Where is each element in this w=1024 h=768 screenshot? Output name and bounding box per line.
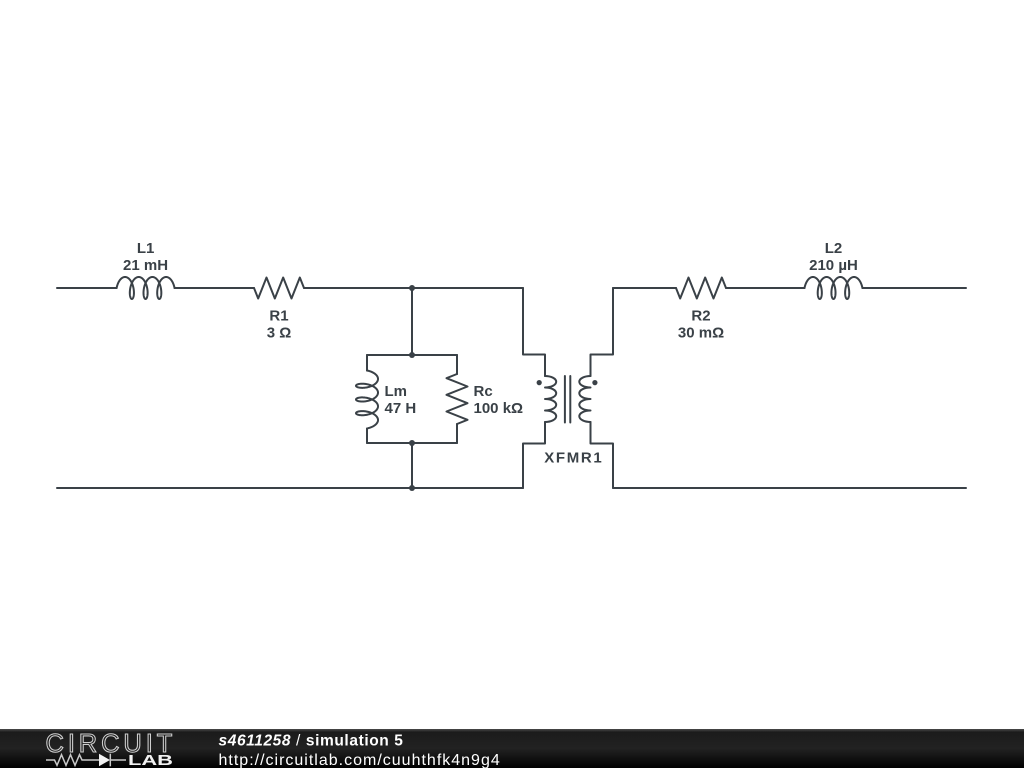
svg-text:R2: R2 <box>691 307 710 324</box>
svg-text:3 Ω: 3 Ω <box>267 324 292 341</box>
svg-text:Lm: Lm <box>385 383 408 400</box>
svg-text:L1: L1 <box>137 240 155 257</box>
svg-text:100 kΩ: 100 kΩ <box>474 400 524 417</box>
svg-text:30 mΩ: 30 mΩ <box>678 324 724 341</box>
svg-text:Rc: Rc <box>474 383 493 400</box>
svg-text:47 H: 47 H <box>385 400 417 417</box>
svg-text:http://circuitlab.com/cuuhthfk: http://circuitlab.com/cuuhthfk4n9g4 <box>219 752 501 768</box>
svg-text:XFMR1: XFMR1 <box>544 450 602 467</box>
svg-text:21 mH: 21 mH <box>123 257 168 274</box>
svg-text:R1: R1 <box>269 307 288 324</box>
svg-text:L2: L2 <box>825 240 843 257</box>
svg-text:LAB: LAB <box>128 752 173 768</box>
svg-text:210 µH: 210 µH <box>809 257 858 274</box>
svg-text:s4611258 / simulation 5: s4611258 / simulation 5 <box>219 733 404 750</box>
